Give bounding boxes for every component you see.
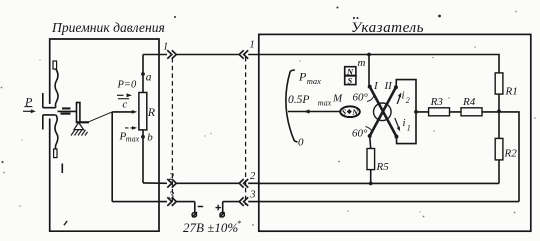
svg-text:60°: 60° — [352, 127, 368, 139]
svg-text:max: max — [126, 135, 140, 144]
svg-text:a: a — [146, 72, 152, 84]
svg-text:R1: R1 — [505, 86, 518, 98]
svg-text:R: R — [147, 105, 156, 119]
svg-text:R2: R2 — [504, 148, 518, 160]
svg-text:i: i — [402, 90, 405, 102]
svg-text:P=0: P=0 — [117, 80, 137, 91]
svg-text:2: 2 — [250, 171, 256, 182]
svg-text:0: 0 — [298, 137, 304, 149]
svg-text:i: i — [403, 117, 406, 129]
svg-text:3: 3 — [249, 189, 255, 200]
svg-text:M: M — [332, 93, 343, 105]
svg-text:Указатель: Указатель — [351, 19, 424, 36]
svg-text:max: max — [307, 76, 321, 86]
svg-text:*: * — [237, 219, 241, 228]
svg-text:II: II — [384, 80, 394, 92]
svg-text:0.5P: 0.5P — [288, 94, 309, 106]
svg-text:b: b — [147, 132, 153, 144]
svg-text:c: c — [122, 98, 127, 110]
svg-text:3: 3 — [168, 191, 174, 202]
svg-text:R4: R4 — [462, 96, 476, 108]
svg-text:60°: 60° — [353, 91, 369, 103]
svg-text:27В ±10%: 27В ±10% — [183, 220, 238, 235]
svg-text:max: max — [318, 99, 332, 108]
svg-text:R3: R3 — [430, 96, 444, 108]
svg-text:2: 2 — [406, 96, 410, 105]
svg-text:R5: R5 — [376, 161, 390, 173]
svg-text:2: 2 — [169, 172, 175, 183]
svg-text:1: 1 — [250, 40, 255, 51]
svg-text:1: 1 — [407, 124, 411, 133]
svg-text:S: S — [342, 108, 347, 117]
svg-text:m: m — [358, 57, 366, 69]
svg-text:P: P — [298, 70, 307, 84]
svg-text:1: 1 — [163, 42, 168, 53]
svg-text:S: S — [348, 76, 353, 86]
svg-text:Приемник давления: Приемник давления — [51, 20, 165, 35]
